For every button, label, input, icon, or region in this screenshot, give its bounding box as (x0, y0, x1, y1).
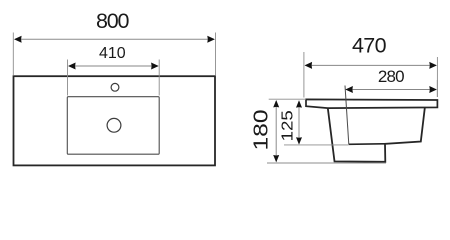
svg-text:280: 280 (378, 67, 404, 86)
svg-text:800: 800 (96, 9, 130, 33)
svg-text:410: 410 (99, 45, 126, 62)
svg-text:470: 470 (352, 34, 387, 58)
svg-text:125: 125 (278, 110, 296, 141)
svg-text:180: 180 (249, 109, 272, 150)
